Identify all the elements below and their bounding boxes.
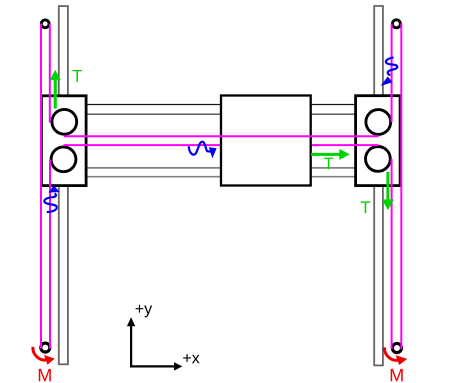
label M (right motor) xyxy=(391,369,403,381)
axis x arrowhead xyxy=(174,362,182,370)
belt left inner vertical run lower segment xyxy=(49,160,51,349)
right carriage top pulley xyxy=(366,110,391,135)
left carriage top pulley xyxy=(52,109,77,134)
centre block xyxy=(221,96,311,186)
spring squiggle middle with arrow xyxy=(189,142,211,155)
label M (left motor) xyxy=(39,369,51,381)
label +y xyxy=(136,305,153,318)
top gantry rod lower line (right span) xyxy=(311,113,356,115)
label T (left carriage) xyxy=(72,70,82,82)
right vertical rail xyxy=(374,6,383,365)
label T (right carriage) xyxy=(361,201,371,213)
belt lower horizontal run (passes behind centre block) xyxy=(63,144,378,146)
left carriage block xyxy=(41,96,86,186)
top left idler pulley xyxy=(41,20,49,28)
motor rotation arrow right xyxy=(384,347,397,360)
label T (centre block) xyxy=(324,158,334,170)
bottom left motor pulley xyxy=(41,343,50,352)
left vertical rail xyxy=(59,6,68,364)
belt right inner vertical run upper segment xyxy=(391,24,393,123)
belt right outer vertical run xyxy=(400,24,402,350)
belt right inner vertical run lower segment xyxy=(391,159,393,349)
bottom gantry rod upper line (left span) xyxy=(86,167,221,169)
right carriage block xyxy=(356,96,401,186)
top gantry rod upper line (left span) xyxy=(86,104,221,106)
bottom gantry rod lower line (left span) xyxy=(86,176,221,178)
tension arrow T up (left carriage) xyxy=(50,70,61,109)
motor rotation arrow left xyxy=(33,347,46,360)
bottom gantry rod upper line (right span) xyxy=(311,167,356,169)
spring squiggle top-right with arrow xyxy=(386,57,397,75)
coordinate axes xyxy=(130,326,175,367)
top right idler pulley xyxy=(392,20,400,28)
label +x xyxy=(183,354,199,363)
spring squiggle bottom-left with arrow xyxy=(44,193,56,211)
right carriage bottom pulley xyxy=(366,147,391,172)
belt left inner vertical run upper segment xyxy=(49,24,51,123)
top gantry rod lower line (left span) xyxy=(86,113,221,115)
top gantry rod upper line (right span) xyxy=(311,104,356,106)
belt upper horizontal run (passes over centre block) xyxy=(64,135,379,137)
bottom gantry rod lower line (right span) xyxy=(311,176,356,178)
bottom right motor pulley xyxy=(392,343,401,352)
left carriage bottom pulley xyxy=(51,147,76,172)
tension arrow T down (right carriage) xyxy=(382,172,394,211)
axis y arrowhead xyxy=(127,317,135,326)
tension arrow T right (centre block) xyxy=(311,149,350,160)
belt left outer vertical run xyxy=(40,24,42,349)
